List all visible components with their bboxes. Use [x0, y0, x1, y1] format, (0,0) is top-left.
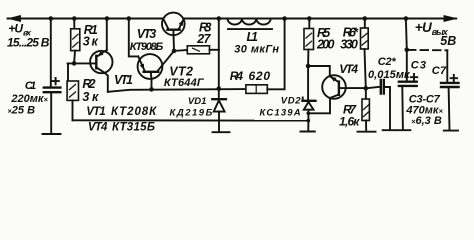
svg-text:VT1: VT1 [114, 73, 133, 87]
svg-text:620: 620 [249, 69, 271, 83]
svg-text:КТ315Б: КТ315Б [112, 121, 155, 133]
svg-text:R4: R4 [230, 69, 244, 83]
svg-text:0,015мк: 0,015мк [368, 69, 411, 81]
svg-text:+U: +U [415, 20, 433, 35]
svg-text:1,6к: 1,6к [339, 115, 360, 129]
svg-text:VD1: VD1 [188, 96, 207, 107]
svg-text:5 В: 5 В [440, 34, 456, 48]
svg-text:27: 27 [196, 32, 211, 46]
svg-text:VD2: VD2 [281, 96, 302, 107]
svg-text:3к: 3к [83, 35, 99, 49]
svg-text:КТ908Б: КТ908Б [130, 41, 164, 53]
svg-text:×25 В: ×25 В [7, 105, 35, 117]
svg-text:C2*: C2* [378, 56, 397, 68]
svg-text:R2: R2 [82, 77, 95, 91]
svg-text:КТ208К: КТ208К [111, 106, 157, 118]
svg-text:30 мкГн: 30 мкГн [234, 43, 279, 55]
svg-text:C3: C3 [411, 59, 426, 71]
svg-text:15...25 В: 15...25 В [7, 35, 50, 49]
svg-text:VT4: VT4 [88, 121, 108, 133]
svg-text:200: 200 [316, 38, 335, 52]
svg-text:+U: +U [8, 22, 23, 36]
svg-text:КД219Б: КД219Б [170, 107, 213, 118]
svg-text:×6,3 В: ×6,3 В [411, 115, 442, 127]
svg-text:VT1: VT1 [86, 106, 106, 118]
svg-text:C7: C7 [432, 65, 447, 77]
svg-text:VT4: VT4 [339, 62, 358, 76]
svg-text:КТ644Г: КТ644Г [164, 77, 205, 89]
svg-text:КС139А: КС139А [260, 108, 301, 119]
svg-text:VT3: VT3 [137, 27, 156, 41]
svg-text:L1: L1 [247, 30, 259, 44]
svg-text:220мк×: 220мк× [10, 93, 48, 105]
svg-text:330: 330 [340, 38, 358, 52]
svg-text:C1: C1 [25, 80, 36, 92]
